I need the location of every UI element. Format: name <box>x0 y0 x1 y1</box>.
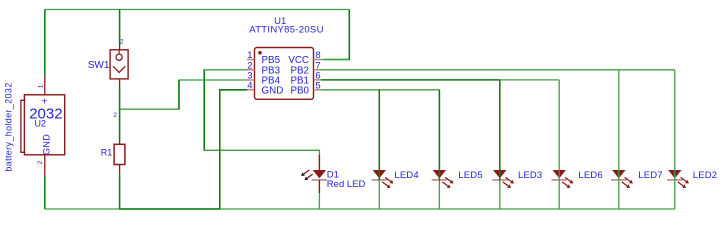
wire PB3 riser dark <box>203 70 205 151</box>
svg-text:GND: GND <box>42 134 52 155</box>
LED6 emission arrows <box>562 177 573 188</box>
wire PB3 net to D1 <box>204 70 319 158</box>
LED6 triangle <box>553 170 566 178</box>
LED4 cathode bar <box>372 179 387 181</box>
wire PB4 net: switch junction to pin 3 <box>120 80 248 109</box>
svg-text:5: 5 <box>315 80 320 91</box>
svg-text:GND: GND <box>262 85 284 96</box>
U1 pin 3 stub <box>247 79 255 81</box>
wire switch bottom to resistor <box>119 87 121 142</box>
U1 pin 8 stub <box>314 59 322 61</box>
wire LED7 vertical from pin row over symbol <box>618 70 620 209</box>
LED5 emission arrows <box>442 177 453 188</box>
svg-text:ATTINY85-20SU: ATTINY85-20SU <box>249 25 323 36</box>
svg-text:battery_holder_2032: battery_holder_2032 <box>4 82 14 171</box>
svg-text:LED7: LED7 <box>638 170 662 181</box>
op-amp U1 body <box>255 48 314 100</box>
svg-text:2: 2 <box>37 160 44 164</box>
switch SW1 body <box>110 50 128 79</box>
svg-text:1: 1 <box>37 84 44 88</box>
wire switch top <box>119 10 121 46</box>
resistor R1 bottom stub <box>119 165 121 175</box>
LED D1 cathode stub <box>318 180 320 193</box>
LED6 cathode bar <box>552 179 567 181</box>
wire VCC riser to pin 8 <box>324 10 349 60</box>
LED D1 cathode bar <box>312 179 327 181</box>
svg-text:LED5: LED5 <box>458 170 482 181</box>
wire LED4 vertical from pin row over symbol <box>378 90 380 181</box>
U1 pin 6 stub <box>314 79 322 81</box>
LED2 cathode bar <box>667 179 682 181</box>
LED3 cathode bar <box>492 179 507 181</box>
battery U2 pin 1 stub <box>44 76 46 95</box>
LED2 triangle <box>668 170 681 178</box>
svg-text:SW1: SW1 <box>88 60 110 71</box>
wire D1 cathode to bus <box>318 193 320 209</box>
switch SW1 pin 1 stub bottom <box>119 79 121 87</box>
svg-text:LED4: LED4 <box>394 170 418 181</box>
LED4 triangle <box>373 170 386 178</box>
LED3 emission arrows <box>503 177 514 188</box>
svg-text:R1: R1 <box>101 147 113 157</box>
wire LED4 cathode to bus <box>378 181 380 210</box>
LED2 emission arrows <box>678 177 689 188</box>
U1 pin 1 stub <box>247 59 255 61</box>
wire resistor bottom to bus <box>119 175 121 209</box>
wire PB1 run light to LED6 <box>500 79 559 81</box>
wire LED2 vertical from pin row over symbol <box>674 70 676 209</box>
battery U2 pin 2 stub <box>44 155 46 177</box>
wire battery pin1 up <box>44 10 46 76</box>
resistor R1 body <box>114 144 125 164</box>
U1 pin 2 stub <box>247 69 255 71</box>
wire ground bus dark overlap segment <box>120 208 220 210</box>
svg-text:PB0: PB0 <box>290 85 309 96</box>
wire LED5 vertical from pin row over symbol <box>438 90 440 181</box>
wire ground bus <box>45 208 675 210</box>
wire pin 8 stub horizontal <box>321 59 349 61</box>
svg-text:LED2: LED2 <box>693 170 717 181</box>
LED4 emission arrows <box>382 177 393 188</box>
LED5 cathode bar <box>432 179 447 181</box>
U1 pin 1 marker dot <box>258 51 262 55</box>
LED7 triangle <box>612 170 625 178</box>
wire LED3 cathode to bus <box>499 181 501 210</box>
svg-text:4: 4 <box>247 80 252 91</box>
battery U2 body <box>21 95 65 155</box>
wire LED5 cathode to bus <box>438 181 440 210</box>
wire PB4 riser dark <box>178 80 180 109</box>
wire top VCC rail <box>45 9 350 11</box>
U1 pin 4 stub <box>247 89 255 91</box>
LED D1 triangle <box>313 170 326 178</box>
switch SW1 pin 2 stub top <box>119 46 121 50</box>
svg-text:LED3: LED3 <box>518 170 542 181</box>
wire LED6 vertical from pin row over symbol <box>558 80 560 209</box>
wire PB1 net pin 6 run dark <box>321 79 500 81</box>
LED5 triangle <box>433 170 446 178</box>
wire battery pin2 down to ground bus <box>44 177 46 210</box>
U1 pin 5 stub <box>314 89 322 91</box>
svg-text:LED6: LED6 <box>578 170 602 181</box>
wire PB0 net pin 5 run <box>321 89 439 91</box>
LED D1 anode stub <box>318 155 320 170</box>
wire LED3 vertical from pin row over symbol <box>499 80 501 181</box>
svg-text:U2: U2 <box>35 119 47 129</box>
resistor R1 top stub <box>119 141 121 144</box>
LED3 triangle <box>493 170 506 178</box>
LED D1 emission arrows <box>301 170 313 180</box>
svg-text:Red LED: Red LED <box>327 179 366 190</box>
U1 pin 7 stub <box>314 69 322 71</box>
wire GND pin 4 to bus <box>220 90 248 209</box>
wire PB2 net pin 7 run <box>321 69 675 71</box>
LED7 emission arrows <box>622 177 633 188</box>
LED7 cathode bar <box>611 179 626 181</box>
